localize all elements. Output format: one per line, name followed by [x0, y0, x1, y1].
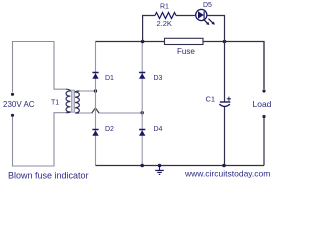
wire: C1 branch lower	[224, 107, 226, 166]
LED light arrow 2	[209, 19, 215, 25]
capacitor C1 top plate	[220, 101, 231, 103]
node: junction secondary to bridge leg B	[141, 111, 144, 114]
diode D4	[139, 130, 145, 136]
svg-text:D3: D3	[154, 75, 163, 82]
transformer T1 core	[72, 90, 75, 112]
node: junction top rail / R1 branch / leg B	[141, 40, 145, 44]
wire: bridge leg B vertical	[141, 42, 143, 166]
diode D1	[92, 73, 98, 79]
diode D3	[139, 73, 145, 79]
wire: R1 to LED	[176, 15, 195, 17]
svg-text:D5: D5	[203, 2, 212, 9]
LED D5	[196, 9, 207, 20]
LED light arrow 1	[203, 19, 209, 25]
svg-text:T1: T1	[51, 100, 59, 107]
wire: top rail	[96, 42, 265, 90]
svg-text:www.circuitstoday.com: www.circuitstoday.com	[184, 169, 270, 179]
wire: C1 branch upper	[224, 42, 226, 103]
svg-text:D2: D2	[105, 126, 114, 133]
svg-text:Fuse: Fuse	[177, 47, 195, 56]
capacitor C1 polarity plus	[227, 97, 231, 101]
svg-text:R1: R1	[160, 4, 169, 11]
node: junction top rail / LED return / C1 branch	[223, 40, 227, 44]
wire: AC input top lead to transformer primary	[13, 42, 67, 93]
node: load top terminal dot	[262, 89, 265, 92]
svg-text:Blown fuse indicator: Blown fuse indicator	[8, 171, 89, 181]
wire: AC input bottom lead to transformer primary	[13, 113, 67, 166]
resistor R1	[155, 13, 176, 19]
capacitor C1 bottom plate	[219, 104, 230, 106]
node: junction bottom rail / leg B	[140, 164, 144, 168]
node: AC top terminal dot	[11, 93, 14, 96]
svg-text:D1: D1	[105, 75, 114, 82]
wire: bridge leg A vertical	[95, 42, 97, 166]
node: load bottom terminal dot	[262, 115, 265, 118]
transformer T1 secondary coil	[75, 91, 79, 113]
fuse F1 body	[165, 38, 204, 44]
wire: secondary top lead	[79, 90, 96, 92]
wire: LED to top rail	[207, 16, 225, 42]
node: junction secondary to bridge leg A	[94, 89, 97, 92]
svg-text:230V AC: 230V AC	[3, 100, 35, 109]
ground symbol	[155, 166, 164, 175]
node: AC bottom terminal dot	[11, 114, 14, 117]
diode D2	[92, 130, 98, 136]
node: junction bottom rail / C1	[222, 164, 226, 168]
wire: load top lead	[263, 42, 265, 90]
svg-text:2.2K: 2.2K	[157, 19, 172, 28]
node: junction bottom rail / ground	[158, 164, 162, 168]
transformer T1 primary coil	[66, 89, 70, 113]
wire: R1/LED branch	[143, 16, 155, 42]
wire: load bottom lead	[263, 118, 265, 166]
wire: secondary bottom lead with hop over leg A	[79, 108, 142, 113]
wire: bottom rail	[96, 165, 265, 167]
svg-text:Load: Load	[253, 99, 272, 109]
svg-text:C1: C1	[206, 95, 216, 104]
svg-text:D4: D4	[154, 126, 163, 133]
